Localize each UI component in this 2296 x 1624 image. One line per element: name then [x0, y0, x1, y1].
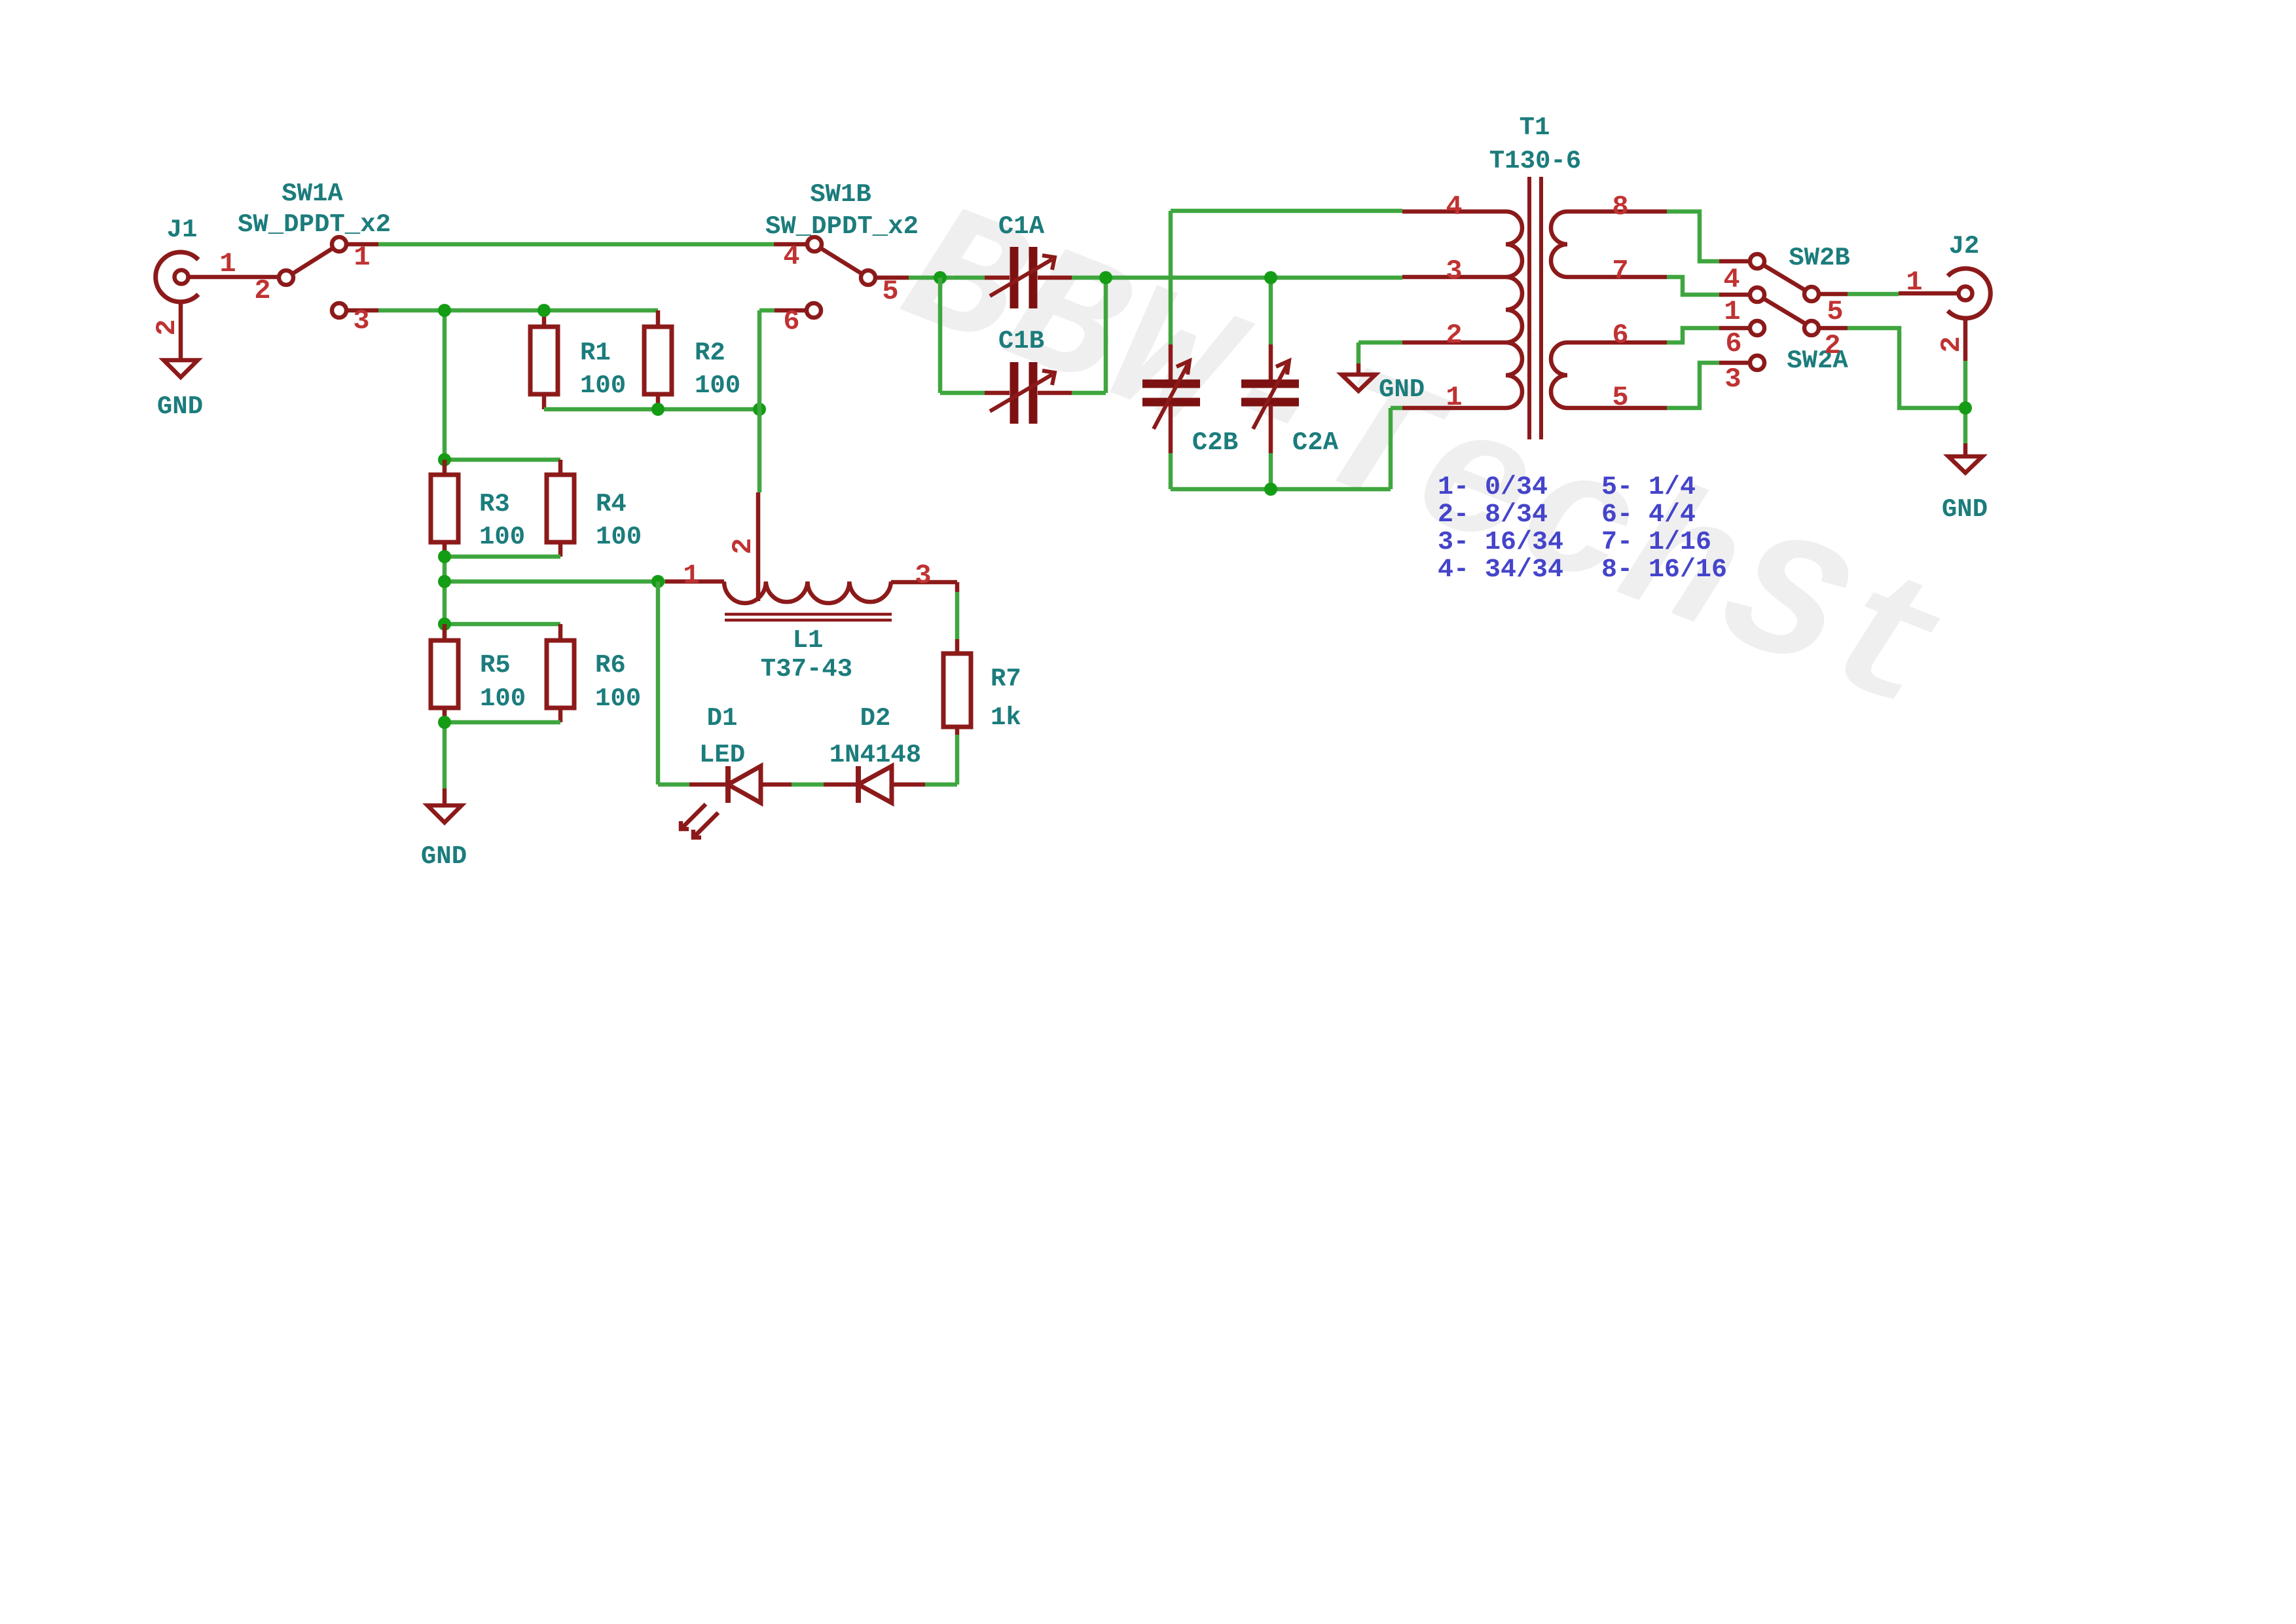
wire T1.5 to SW2A throw 3	[1667, 363, 1719, 408]
ground lower left	[428, 788, 462, 822]
svg-text:2: 2	[727, 538, 759, 554]
junction at 1005,888	[651, 575, 665, 588]
wire vertical bus x=679	[443, 310, 447, 788]
resistor R1	[530, 310, 558, 409]
svg-text:GND: GND	[421, 842, 467, 871]
svg-text:1- 0/34: 1- 0/34	[1438, 473, 1548, 502]
wire R3/R4 top row	[445, 458, 560, 462]
switch SW1A	[279, 237, 378, 318]
capacitor C1A	[985, 247, 1072, 308]
svg-text:100: 100	[595, 684, 641, 713]
switch SW2A	[1719, 287, 1848, 370]
svg-text:6- 4/4: 6- 4/4	[1601, 500, 1696, 530]
capacitor C1B	[985, 362, 1072, 424]
wire C2B riser	[1169, 211, 1173, 489]
svg-text:5: 5	[1827, 296, 1843, 327]
ground at J2	[1948, 443, 1982, 473]
svg-text:3: 3	[915, 560, 931, 591]
svg-text:1: 1	[219, 248, 236, 280]
svg-text:T1: T1	[1520, 113, 1550, 142]
svg-text:5: 5	[882, 276, 898, 307]
junction at 679,953	[438, 618, 451, 631]
svg-text:R7: R7	[991, 665, 1021, 693]
svg-text:SW1A: SW1A	[282, 179, 343, 208]
svg-text:2: 2	[1936, 336, 1967, 352]
switch SW2B	[1719, 254, 1848, 301]
wire C2 bottom row	[1171, 487, 1391, 492]
svg-text:5: 5	[1612, 382, 1628, 413]
svg-text:100: 100	[480, 684, 526, 713]
connector J2	[1899, 268, 1990, 361]
switch SW1B	[774, 237, 909, 318]
resistor R2	[644, 310, 672, 409]
inductor L1	[665, 492, 957, 620]
svg-text:2: 2	[1446, 320, 1462, 351]
wire T1 pin1 stub	[1391, 406, 1402, 411]
wire R5/R6 bottom row	[445, 720, 560, 725]
wire SW1B.6 horizontal	[759, 308, 774, 313]
svg-text:8- 16/16: 8- 16/16	[1601, 555, 1727, 585]
wire SW2A.2 to J2 ground junction	[1848, 328, 1965, 408]
capacitor C2B	[1142, 344, 1200, 453]
wire R7 bottom	[955, 735, 960, 784]
svg-text:100: 100	[695, 371, 740, 400]
svg-text:6: 6	[783, 306, 799, 337]
svg-text:4: 4	[783, 241, 799, 272]
svg-text:4: 4	[1723, 264, 1740, 295]
svg-text:LED: LED	[699, 741, 745, 769]
diode D2 1N4148	[824, 766, 925, 803]
svg-text:T130-6: T130-6	[1489, 147, 1581, 175]
svg-text:D2: D2	[860, 704, 891, 733]
svg-text:4- 34/34: 4- 34/34	[1438, 555, 1563, 585]
svg-text:5- 1/4: 5- 1/4	[1601, 473, 1696, 502]
svg-text:100: 100	[479, 523, 525, 551]
svg-text:100: 100	[596, 523, 642, 551]
svg-text:1: 1	[1724, 296, 1740, 327]
wire C1B right	[1072, 391, 1106, 396]
svg-text:7- 1/16: 7- 1/16	[1601, 528, 1711, 557]
resistor R7	[943, 582, 971, 735]
svg-text:8: 8	[1612, 191, 1628, 223]
svg-text:GND: GND	[1942, 495, 1988, 524]
junction at 679,474	[438, 304, 451, 317]
ground at J1	[164, 360, 198, 377]
resistor R6	[547, 624, 574, 722]
ground at T1 pin2	[1341, 363, 1376, 391]
svg-text:2- 8/34: 2- 8/34	[1438, 500, 1548, 530]
svg-text:2: 2	[254, 275, 270, 306]
svg-text:J2: J2	[1949, 232, 1980, 261]
svg-text:1: 1	[1906, 267, 1922, 298]
watermark	[877, 172, 1974, 762]
svg-text:R6: R6	[595, 651, 626, 680]
svg-text:3: 3	[353, 305, 369, 337]
wire L1 pin1 row	[445, 580, 665, 584]
svg-text:SW_DPDT_x2: SW_DPDT_x2	[765, 212, 919, 241]
wire R7 top	[955, 592, 960, 639]
wire SW2B.5 to J2.1	[1848, 292, 1899, 297]
svg-text:L1: L1	[793, 626, 824, 655]
wire T1.6 to SW2A throw 6	[1667, 328, 1719, 342]
svg-text:GND: GND	[157, 392, 203, 421]
junction at 679,702	[438, 453, 451, 466]
wire R1 bottom to L1 pin2 riser	[544, 407, 759, 412]
junction at R2 bottom	[651, 403, 665, 416]
diode D1 LED	[681, 766, 792, 838]
wire SW1A.1 to SW1B.4	[378, 242, 774, 247]
svg-text:1: 1	[354, 242, 370, 273]
wire R3/R4 bottom row	[445, 555, 560, 559]
svg-text:J1: J1	[167, 215, 198, 244]
junction at 1436,424	[934, 271, 947, 284]
svg-text:GND: GND	[1379, 375, 1425, 404]
svg-text:SW2B: SW2B	[1789, 244, 1850, 272]
svg-text:R2: R2	[695, 339, 725, 367]
wire C2A riser	[1269, 278, 1273, 489]
wire C1 loop left riser	[938, 278, 943, 393]
svg-text:R1: R1	[580, 339, 611, 367]
wire C1 loop right riser	[1104, 278, 1108, 393]
junction at 1941,747	[1264, 483, 1277, 496]
wire SW1B.5 to C1A	[909, 276, 985, 280]
svg-text:4: 4	[1446, 191, 1462, 223]
junction at 679,850	[438, 550, 451, 563]
resistor R5	[431, 624, 458, 722]
capacitor C2A	[1241, 344, 1299, 453]
junction at 679,888	[438, 575, 451, 588]
svg-text:1k: 1k	[991, 703, 1021, 732]
svg-text:R4: R4	[596, 490, 627, 519]
svg-text:1N4148: 1N4148	[829, 741, 921, 769]
svg-text:3: 3	[1724, 363, 1741, 395]
svg-text:C2B: C2B	[1192, 428, 1238, 457]
svg-text:3- 16/34: 3- 16/34	[1438, 528, 1563, 557]
svg-text:C1A: C1A	[998, 212, 1045, 241]
svg-text:7: 7	[1612, 255, 1628, 287]
wire J2.2 down	[1963, 361, 1968, 443]
wire T1 pin2 to GND	[1358, 341, 1402, 345]
resistor R4	[547, 460, 574, 557]
resistor R3	[431, 460, 458, 557]
svg-text:SW_DPDT_x2: SW_DPDT_x2	[238, 210, 391, 239]
svg-text:C2A: C2A	[1292, 428, 1339, 457]
svg-text:6: 6	[1612, 320, 1628, 351]
svg-text:100: 100	[580, 371, 626, 400]
svg-text:2: 2	[1824, 330, 1840, 361]
svg-text:R5: R5	[480, 651, 511, 680]
connector J1	[156, 252, 279, 360]
wire R5/R6 top row	[445, 622, 560, 627]
svg-text:SW1B: SW1B	[810, 180, 871, 209]
wire LED loop bottom segments	[658, 783, 957, 787]
svg-text:D1: D1	[707, 704, 738, 733]
winding table text	[1438, 473, 1727, 585]
svg-text:C1B: C1B	[998, 327, 1044, 356]
junction at 679,1103	[438, 716, 451, 729]
wire T1 pin4 row	[1171, 209, 1402, 213]
svg-text:R3: R3	[479, 490, 510, 519]
svg-text:3: 3	[1446, 255, 1462, 287]
junction at 1941,424	[1264, 271, 1277, 284]
wire T1.8 to SW2B.4	[1667, 212, 1719, 261]
junction at R1 top	[538, 304, 551, 317]
wire SW1A.3 to R1/R2 top	[378, 308, 658, 313]
svg-text:1: 1	[683, 560, 699, 591]
svg-text:1: 1	[1446, 382, 1462, 413]
junction at 1689,424	[1099, 271, 1112, 284]
wire T1 pin1 riser	[1389, 408, 1393, 489]
svg-text:T37-43: T37-43	[761, 655, 852, 684]
wire T1.7 to SW2A.1	[1667, 277, 1719, 295]
junction at 3002,623	[1959, 401, 1972, 415]
svg-text:2: 2	[151, 319, 183, 335]
wire L1 pin1 down to LED loop	[656, 581, 661, 784]
junction at 1160,625	[753, 403, 766, 416]
wire SW1B.6 riser x=1160	[757, 310, 762, 492]
transformer T1	[1402, 177, 1667, 439]
svg-text:6: 6	[1725, 328, 1741, 360]
wire C1B row left	[940, 391, 985, 396]
wire C1A right to T1 pin3	[1072, 276, 1402, 280]
